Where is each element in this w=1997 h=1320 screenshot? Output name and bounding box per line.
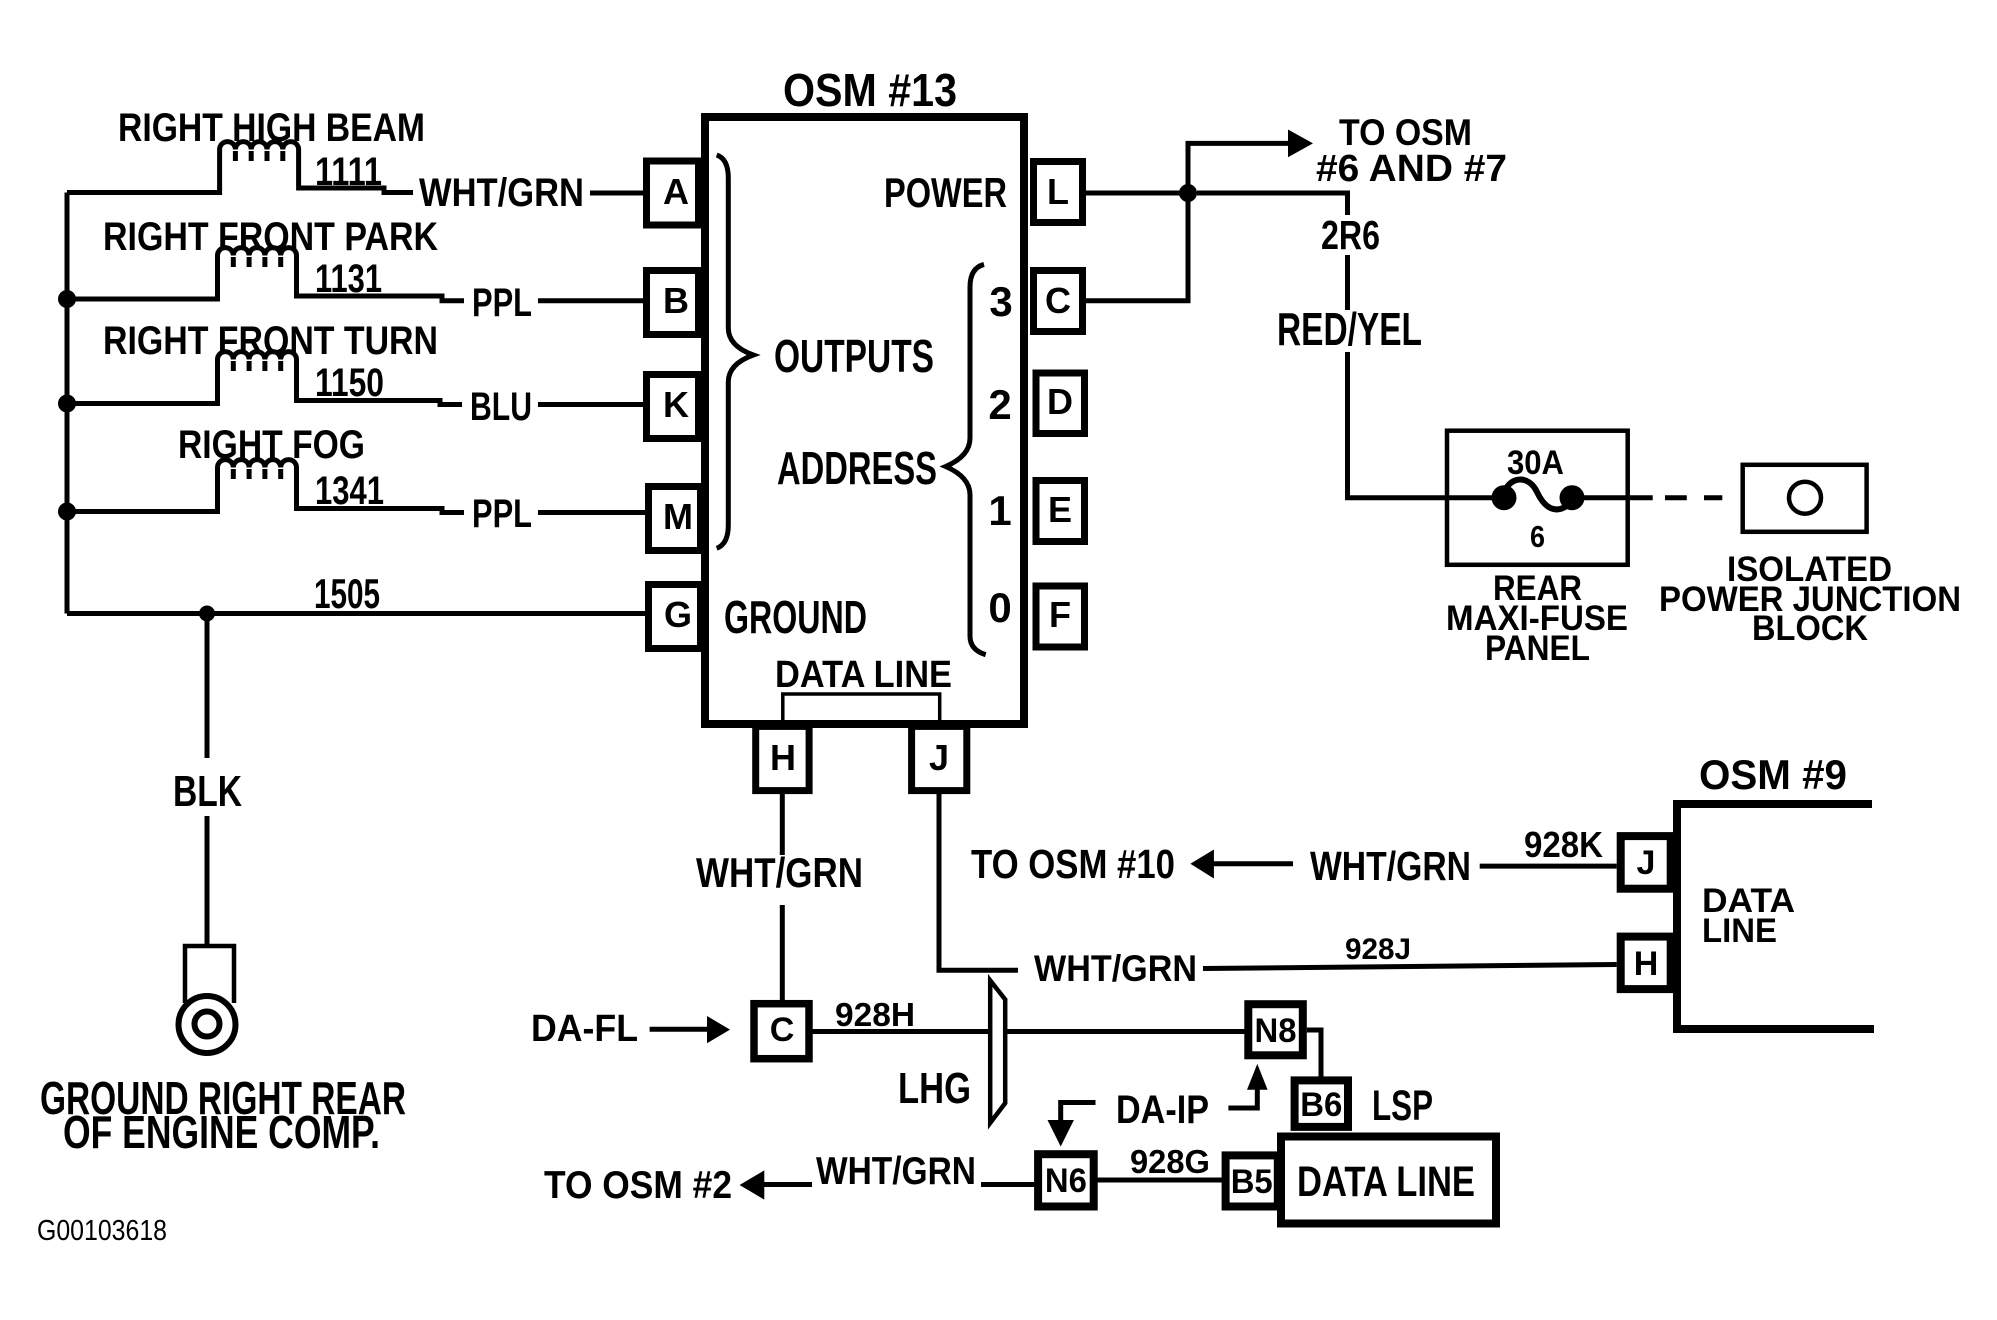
svg-text:30A: 30A	[1507, 444, 1564, 482]
wire 1505 ground to pin G	[67, 611, 645, 616]
svg-text:B: B	[663, 280, 689, 321]
arrowhead to OSM 6 and 7	[1288, 130, 1313, 158]
svg-text:WHT/GRN: WHT/GRN	[816, 1150, 976, 1193]
pin E box	[1036, 481, 1085, 542]
svg-text:BLK: BLK	[173, 767, 242, 816]
svg-text:L: L	[1047, 171, 1069, 212]
pin L box	[1034, 162, 1083, 223]
svg-text:928K: 928K	[1524, 824, 1603, 865]
wire bulkhead to N8	[1005, 1029, 1248, 1034]
svg-text:B5: B5	[1231, 1163, 1273, 1201]
OSM9 pin J box	[1621, 836, 1671, 889]
lamp coil RIGHT FOG	[67, 460, 464, 513]
svg-text:GROUND: GROUND	[724, 591, 867, 643]
svg-text:N6: N6	[1045, 1162, 1087, 1200]
brace outputs	[717, 155, 754, 548]
svg-text:DATA LINE: DATA LINE	[1297, 1158, 1475, 1206]
pin D box	[1036, 373, 1085, 434]
lamp coil RIGHT FRONT TURN	[67, 352, 462, 405]
svg-text:M: M	[663, 496, 693, 537]
connector N8 box	[1248, 1004, 1303, 1055]
wire BLU to pin K	[538, 402, 643, 407]
svg-text:G00103618: G00103618	[37, 1215, 167, 1247]
wire PPL to pin B	[538, 298, 643, 303]
junction dot wire 1505	[199, 606, 215, 622]
svg-text:LSP: LSP	[1372, 1082, 1433, 1130]
svg-text:RIGHT FRONT TURN: RIGHT FRONT TURN	[103, 319, 438, 363]
isolated power junction block box	[1743, 465, 1867, 532]
svg-text:OSM #9: OSM #9	[1699, 751, 1847, 798]
svg-text:1341: 1341	[315, 469, 384, 513]
svg-text:#6 AND #7: #6 AND #7	[1316, 148, 1507, 190]
svg-text:TO OSM #2: TO OSM #2	[544, 1164, 732, 1207]
svg-text:RED/YEL: RED/YEL	[1277, 303, 1422, 355]
svg-text:1: 1	[988, 487, 1011, 534]
svg-text:WHT/GRN: WHT/GRN	[1310, 843, 1471, 889]
wire pin H down to connector C	[780, 791, 785, 1000]
svg-text:OUTPUTS: OUTPUTS	[774, 330, 934, 382]
svg-text:D: D	[1047, 381, 1073, 422]
svg-text:WHT/GRN: WHT/GRN	[696, 849, 863, 896]
wire DA-IP hook down arrow to N6	[1061, 1103, 1096, 1122]
data line bracket	[783, 694, 940, 722]
LSP module box	[1281, 1137, 1496, 1224]
module box OSM #13	[705, 117, 1024, 724]
junction dot L/C node	[1179, 184, 1197, 202]
junction dot bus row B	[58, 290, 76, 308]
wire from pin L	[1083, 191, 1189, 196]
wire to OSM #10 arrow	[1213, 861, 1293, 866]
svg-text:TO OSM: TO OSM	[1339, 112, 1472, 153]
svg-text:PPL: PPL	[472, 281, 532, 325]
rear maxi-fuse panel box	[1447, 431, 1628, 565]
svg-text:C: C	[1045, 280, 1071, 321]
wire 2R6 RED/YEL to fuse	[1197, 193, 1447, 498]
svg-text:DA-IP: DA-IP	[1116, 1088, 1209, 1132]
pin K box	[647, 375, 699, 439]
bus wire left vertical	[65, 193, 70, 614]
svg-text:B6: B6	[1300, 1086, 1342, 1124]
lamp coil RIGHT FRONT PARK	[67, 248, 464, 301]
svg-text:928J: 928J	[1345, 933, 1411, 966]
wire 928J into OSM9 pin H	[1203, 965, 1617, 969]
svg-text:DA-FL: DA-FL	[531, 1008, 638, 1050]
wire pin J down and right 928J	[939, 791, 1018, 971]
arrowhead DA-IP into N6	[1048, 1120, 1074, 1147]
wire 928H C to bulkhead	[812, 1029, 990, 1034]
svg-text:OSM #13: OSM #13	[783, 64, 957, 116]
svg-text:LHG: LHG	[898, 1064, 971, 1113]
svg-text:PPL: PPL	[472, 492, 532, 536]
svg-text:J: J	[929, 737, 949, 778]
wire DA-FL arrow	[650, 1027, 709, 1032]
lamp coil RIGHT HIGH BEAM	[67, 142, 413, 193]
OSM9 pin H box	[1621, 937, 1671, 990]
pin M box	[649, 487, 701, 551]
wire DA-IP up arrow to N8	[1228, 1088, 1257, 1108]
pin H box	[756, 726, 809, 790]
pin G box	[649, 585, 701, 649]
connector N6 box	[1038, 1154, 1094, 1206]
svg-text:H: H	[770, 737, 796, 778]
connector B5 box	[1226, 1155, 1278, 1206]
wire BLK ground drop	[205, 614, 210, 947]
wire PPL to pin M	[538, 510, 645, 515]
pin F box	[1036, 586, 1085, 647]
svg-text:1505: 1505	[314, 570, 380, 617]
svg-text:N8: N8	[1255, 1012, 1297, 1050]
svg-text:A: A	[663, 171, 689, 212]
svg-text:G: G	[664, 594, 692, 635]
pin J box	[912, 726, 967, 790]
svg-text:LINE: LINE	[1702, 912, 1777, 950]
svg-text:1111: 1111	[315, 150, 382, 194]
svg-text:928G: 928G	[1130, 1143, 1210, 1180]
arrowhead to OSM #2	[740, 1170, 765, 1199]
module box OSM #9	[1677, 804, 1874, 1029]
svg-text:J: J	[1637, 844, 1656, 882]
svg-text:C: C	[770, 1011, 795, 1049]
dashed wire fuse to junction block	[1630, 495, 1722, 500]
connector C box	[754, 1004, 809, 1059]
svg-text:RIGHT FRONT PARK: RIGHT FRONT PARK	[103, 215, 438, 259]
svg-text:BLU: BLU	[470, 385, 532, 429]
svg-text:WHT/GRN: WHT/GRN	[419, 171, 584, 215]
junction dot bus row M	[58, 503, 76, 521]
svg-text:PANEL: PANEL	[1485, 629, 1590, 668]
svg-text:OF ENGINE COMP.: OF ENGINE COMP.	[63, 1106, 380, 1158]
wire branch up to OSM 6 and 7	[1188, 143, 1289, 193]
svg-text:928H: 928H	[835, 996, 915, 1033]
arrowhead DA-FL into C	[707, 1016, 730, 1043]
arrowhead DA-IP into N8	[1247, 1064, 1268, 1090]
svg-text:DATA LINE: DATA LINE	[775, 654, 952, 696]
svg-text:BLOCK: BLOCK	[1752, 609, 1868, 648]
wire WHT/GRN to N6	[981, 1182, 1038, 1187]
junction dot bus row K	[58, 395, 76, 413]
wire N8 to B6	[1307, 1030, 1321, 1078]
wire WHT/GRN to pin A	[590, 191, 643, 196]
brace address	[946, 264, 986, 654]
wire to OSM #2 arrow	[763, 1182, 812, 1187]
pin C box	[1034, 271, 1083, 332]
svg-text:WHT/GRN: WHT/GRN	[1034, 948, 1197, 989]
arrowhead to OSM #10	[1190, 850, 1214, 879]
svg-text:E: E	[1048, 489, 1072, 530]
wire 928K into OSM9 pin J	[1480, 864, 1617, 869]
svg-text:H: H	[1634, 945, 1659, 983]
svg-text:F: F	[1049, 594, 1071, 635]
connector B6 box	[1295, 1080, 1348, 1127]
pin A box	[647, 161, 699, 225]
svg-text:6: 6	[1530, 519, 1545, 554]
svg-text:TO OSM #10: TO OSM #10	[971, 841, 1175, 887]
svg-text:ADDRESS: ADDRESS	[777, 442, 937, 494]
svg-text:1131: 1131	[315, 257, 382, 301]
svg-text:2R6: 2R6	[1321, 212, 1380, 258]
wire 928G N6 to B5	[1093, 1178, 1226, 1183]
junction block terminal circle	[1789, 482, 1821, 514]
svg-text:1150: 1150	[315, 361, 384, 405]
svg-text:2: 2	[988, 381, 1011, 428]
svg-text:3: 3	[989, 278, 1012, 325]
svg-text:0: 0	[988, 584, 1011, 631]
svg-text:POWER: POWER	[884, 169, 1007, 216]
wire from pin C up to L junction	[1083, 193, 1189, 301]
fuse 6 element	[1447, 480, 1628, 511]
pin B box	[647, 271, 699, 335]
ground ring terminal	[179, 946, 236, 1053]
svg-text:K: K	[663, 384, 689, 425]
bulkhead connector LHG	[990, 980, 1005, 1123]
